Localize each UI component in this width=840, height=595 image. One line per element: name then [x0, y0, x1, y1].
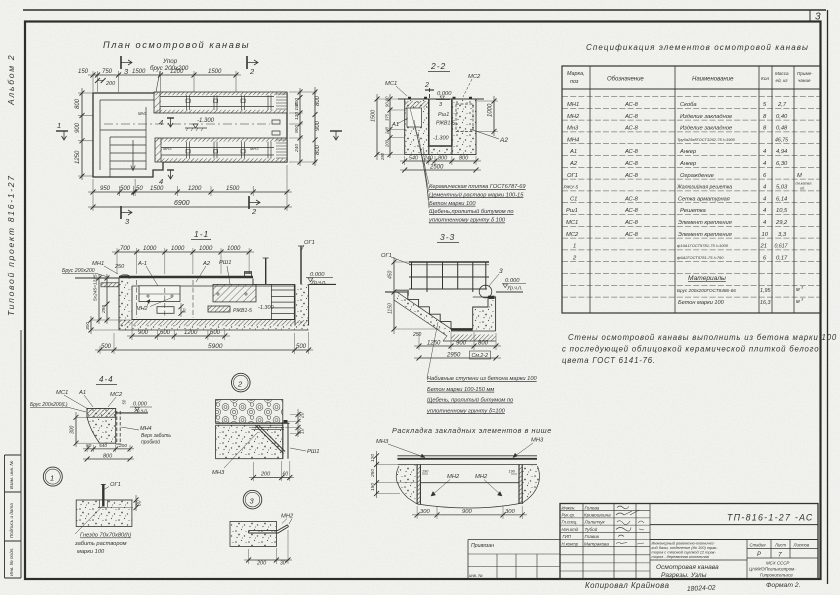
svg-text:Керамическая плитка ГОСТ6787-6: Керамическая плитка ГОСТ6787-69 — [429, 184, 526, 190]
svg-text:0,17: 0,17 — [776, 255, 788, 261]
svg-text:МСХ СССР: МСХ СССР — [766, 561, 789, 566]
МН4 pipe dashed — [117, 411, 120, 444]
svg-text:1: 1 — [50, 473, 54, 482]
svg-text:РЖВ1-5: РЖВ1-5 — [233, 308, 252, 314]
svg-text:300: 300 — [420, 509, 430, 515]
svg-text:900: 900 — [294, 125, 300, 133]
section marker 3 bottom — [121, 206, 132, 226]
svg-text:поз: поз — [570, 79, 579, 85]
svg-text:Рук.гр.: Рук.гр. — [562, 513, 576, 518]
svg-text:Кривошеина: Кривошеина — [584, 513, 611, 518]
svg-text:См.2-2: См.2-2 — [472, 353, 489, 359]
svg-text:Щебень, пролитый битумом по: Щебень, пролитый битумом по — [427, 397, 513, 404]
left brus dark band — [101, 283, 119, 287]
svg-text:Взам. инв. №: Взам. инв. № — [9, 461, 14, 489]
ground line left — [75, 277, 119, 279]
title block outline — [560, 504, 818, 580]
svg-text:1,95: 1,95 — [760, 288, 771, 294]
svg-text:1250: 1250 — [75, 150, 81, 164]
right ladder — [271, 284, 294, 319]
svg-text:МН3: МН3 — [212, 470, 225, 476]
svg-text:Формат 2.: Формат 2. — [766, 582, 801, 589]
svg-text:1000: 1000 — [143, 246, 157, 252]
svg-text:50: 50 — [122, 399, 127, 404]
section 1-1 left rotated dims — [91, 274, 132, 334]
svg-text:120 190: 120 190 — [294, 102, 300, 120]
svg-text:1500: 1500 — [226, 186, 240, 192]
svg-text:295: 295 — [101, 305, 107, 314]
svg-text:46,75: 46,75 — [775, 137, 788, 143]
top embed ticks — [408, 97, 472, 99]
svg-text:4: 4 — [763, 220, 766, 226]
RZhV dark vent rect — [208, 306, 230, 312]
svg-text:10,5: 10,5 — [776, 208, 788, 214]
plan top dimension line — [88, 71, 241, 92]
svg-text:ф6А2ГОСТ5781-75 l=760: ф6А2ГОСТ5781-75 l=760 — [677, 255, 724, 260]
steps — [397, 292, 473, 329]
section 2-2 left dims — [377, 94, 406, 160]
svg-text:А-1: А-1 — [137, 261, 147, 267]
svg-text:600: 600 — [210, 330, 221, 336]
svg-text:МН3: МН3 — [163, 146, 172, 151]
svg-text:750: 750 — [102, 69, 113, 75]
svg-text:Труба25х8ГОСТ3262-75 l=1900: Труба25х8ГОСТ3262-75 l=1900 — [677, 137, 736, 142]
detail 2 bottom dims — [249, 461, 294, 481]
svg-text:Скоба: Скоба — [680, 102, 697, 108]
svg-text:1000: 1000 — [171, 246, 185, 252]
section 3-3 pit body — [385, 290, 523, 341]
svg-text:190: 190 — [422, 470, 429, 474]
svg-text:Бетон марки 100: Бетон марки 100 — [678, 300, 725, 306]
plan right outer dims 800 900 800 — [314, 87, 316, 166]
svg-text:375: 375 — [385, 113, 390, 121]
svg-text:Р: Р — [757, 552, 761, 558]
detail 1 dim 80 — [108, 495, 136, 511]
svg-text:РШ1: РШ1 — [219, 260, 231, 266]
svg-text:20: 20 — [300, 412, 306, 419]
section 1-1 body — [75, 246, 336, 330]
svg-text:-1.300: -1.300 — [197, 118, 215, 124]
svg-text:Гнездо 70х70х80(h): Гнездо 70х70х80(h) — [80, 533, 131, 539]
svg-text:МН2: МН2 — [136, 306, 148, 312]
svg-text:10: 10 — [300, 428, 306, 434]
section marker 2 bottom — [249, 196, 260, 216]
svg-text:Верх забить: Верх забить — [141, 433, 171, 439]
svg-text:уплотненному грунту δ=100: уплотненному грунту δ=100 — [426, 408, 506, 414]
personnel labels — [562, 505, 579, 546]
svg-text:200: 200 — [256, 561, 267, 567]
small block on beam near RSh1 — [245, 272, 252, 277]
section marker 1 left — [56, 121, 68, 140]
svg-text:Спецификация элементов осмот: Спецификация элементов осмотровой канавы — [586, 43, 809, 52]
svg-text:240: 240 — [423, 156, 433, 162]
svg-text:1: 1 — [57, 121, 61, 130]
svg-text:1000: 1000 — [488, 103, 494, 117]
RSh1 hatched grate — [213, 284, 256, 302]
svg-text:МН4: МН4 — [567, 137, 579, 143]
svg-text:Набивные ступени из бетона мар: Набивные ступени из бетона марки 100 — [427, 376, 538, 382]
svg-text:Гипронисельхоз: Гипронисельхоз — [760, 573, 793, 578]
spec table col3 — [676, 102, 736, 260]
detail circle 2 marker — [232, 373, 251, 392]
plan upper grating strip — [154, 92, 287, 113]
svg-text:50: 50 — [86, 443, 92, 449]
detail 2 right dims — [285, 409, 301, 437]
svg-text:Сетка арматурная: Сетка арматурная — [678, 196, 730, 202]
diagonal strut МН3 — [255, 425, 285, 453]
svg-text:Кол: Кол — [761, 76, 769, 82]
svg-text:10: 10 — [762, 232, 769, 238]
svg-text:500: 500 — [296, 344, 307, 350]
sheet top edge line — [23, 9, 826, 11]
plan lower strip right end grain — [276, 140, 287, 158]
svg-text:А2: А2 — [569, 161, 578, 167]
svg-text:2: 2 — [249, 67, 255, 76]
svg-text:800: 800 — [103, 454, 113, 460]
svg-text:см.катал.: см.катал. — [796, 182, 813, 186]
plan left dimension line — [78, 88, 93, 180]
svg-text:Рш1: Рш1 — [566, 208, 578, 214]
svg-text:1-1: 1-1 — [194, 229, 209, 239]
svg-text:700: 700 — [120, 246, 131, 252]
svg-text:А2: А2 — [499, 137, 508, 144]
svg-text:90 90: 90 90 — [385, 96, 390, 107]
niche bottom — [420, 482, 519, 484]
svg-text:Раскладка закладных элементо: Раскладка закладных элементов в нише — [392, 426, 552, 435]
svg-text:Разрезы. Узлы: Разрезы. Узлы — [661, 572, 707, 579]
detail circle 1 marker — [43, 467, 62, 486]
svg-text:Гл.спец.: Гл.спец. — [562, 520, 578, 525]
svg-text:450: 450 — [388, 270, 394, 279]
svg-text:А1: А1 — [78, 390, 86, 396]
svg-text:Ограждение: Ограждение — [680, 173, 715, 179]
svg-text:500: 500 — [120, 186, 131, 192]
svg-text:Лист: Лист — [774, 543, 786, 548]
bottom section lines — [650, 540, 818, 580]
niche in left wall — [407, 108, 422, 127]
dashed axis lines — [137, 280, 193, 318]
svg-text:Главик: Главик — [585, 534, 600, 539]
svg-text:План осмотровой канавы: План осмотровой канавы — [103, 40, 250, 50]
raskladka left dims — [377, 451, 418, 498]
svg-text:4: 4 — [763, 161, 766, 167]
svg-text:2: 2 — [237, 379, 243, 388]
section 1-1 total dims — [95, 332, 313, 354]
svg-text:900: 900 — [75, 122, 81, 133]
left wall cap bump — [119, 275, 130, 278]
svg-text:Элемент крепления: Элемент крепления — [678, 220, 732, 226]
svg-text:200: 200 — [260, 472, 271, 478]
svg-text:1200: 1200 — [184, 330, 198, 336]
svg-text:21: 21 — [760, 244, 767, 250]
top step right part — [253, 279, 295, 285]
svg-text:МН1: МН1 — [92, 261, 104, 267]
niche small lower rect — [157, 307, 174, 314]
svg-text:Элемент крепления: Элемент крепления — [678, 232, 732, 238]
svg-text:МС2: МС2 — [566, 232, 579, 238]
svg-text:300: 300 — [505, 509, 515, 515]
svg-text:900: 900 — [462, 509, 472, 515]
under-step band lines — [394, 292, 451, 336]
svg-text:Изделие закладное: Изделие закладное — [680, 114, 733, 120]
svg-text:4,94: 4,94 — [776, 149, 787, 155]
svg-text:А2: А2 — [202, 261, 211, 267]
svg-text:800: 800 — [315, 144, 321, 155]
svg-text:МН1: МН1 — [138, 111, 147, 116]
svg-text:Инжен.: Инжен. — [562, 505, 576, 510]
section 3-3 detail circle 3 — [479, 285, 492, 298]
svg-text:0.000: 0.000 — [133, 402, 148, 408]
section marker 3 top — [121, 56, 132, 76]
svg-text:МС1: МС1 — [566, 220, 578, 226]
svg-text:с последующей облицовкой керам: с последующей облицовкой керамической пл… — [562, 345, 819, 354]
detail 4-4 bottom dims — [83, 445, 134, 459]
tile layers band left wall — [405, 101, 429, 108]
svg-text:280: 280 — [380, 152, 385, 161]
svg-text:АС-8: АС-8 — [624, 114, 639, 120]
svg-text:500: 500 — [101, 344, 112, 350]
svg-text:1500: 1500 — [150, 186, 164, 192]
svg-text:РЖУ-5: РЖУ-5 — [564, 185, 579, 191]
svg-text:30: 30 — [280, 561, 286, 567]
svg-text:ОГ1: ОГ1 — [110, 482, 121, 488]
spec table col2 — [624, 102, 639, 238]
svg-text:АС-8: АС-8 — [624, 161, 639, 167]
svg-text:190: 190 — [509, 470, 516, 474]
svg-text:ф10А1ГОСТ5781-75 l=1000: ф10А1ГОСТ5781-75 l=1000 — [677, 243, 729, 248]
svg-text:пробкой: пробкой — [141, 439, 160, 446]
plan channel centerline — [104, 123, 270, 125]
svg-text:Лилипчук: Лилипчук — [584, 520, 606, 525]
detail 1 body — [76, 484, 132, 527]
svg-text:забить раствором: забить раствором — [74, 541, 127, 547]
svg-text:Инв. № подл.: Инв. № подл. — [9, 547, 14, 576]
svg-text:600: 600 — [160, 330, 171, 336]
svg-text:Анкер: Анкер — [679, 161, 697, 167]
plan stairs — [110, 137, 146, 177]
plan bottom dimension line — [88, 165, 292, 196]
detail 4-4 body — [87, 408, 148, 444]
svg-text:6900: 6900 — [174, 200, 190, 207]
svg-text:РШ1: РШ1 — [307, 449, 319, 455]
beam underside / interior top — [132, 285, 295, 287]
svg-text:1: 1 — [573, 244, 576, 250]
svg-text:29,2: 29,2 — [775, 220, 788, 226]
right wall and niche — [473, 297, 496, 331]
svg-text:900: 900 — [456, 341, 467, 347]
detail 3 body — [230, 521, 289, 546]
svg-text:2950: 2950 — [446, 353, 461, 359]
svg-text:800: 800 — [478, 341, 489, 347]
svg-text:Бетон марки 100-150 мм: Бетон марки 100-150 мм — [427, 387, 494, 393]
svg-text:марки 100: марки 100 — [77, 549, 105, 555]
svg-text:900: 900 — [138, 330, 149, 336]
ground line right — [309, 283, 336, 285]
svg-text:Голева: Голева — [585, 505, 600, 510]
plan right inner small dims — [289, 88, 317, 166]
plan lower grating strip — [155, 138, 287, 162]
svg-text:Копировал Крайнова: Копировал Крайнова — [585, 581, 670, 590]
svg-text:АС-8: АС-8 — [624, 173, 639, 179]
svg-text:3: 3 — [499, 268, 503, 275]
svg-text:Цементный раствор марки 100-15: Цементный раствор марки 100-15 — [429, 191, 524, 198]
section 3-3 bottom dims — [414, 332, 501, 350]
section 3-3 notes — [426, 376, 538, 414]
svg-text:Альбом 2: Альбом 2 — [6, 54, 16, 106]
svg-text:900: 900 — [315, 120, 321, 131]
svg-text:МН2: МН2 — [475, 474, 488, 480]
svg-text:950: 950 — [100, 186, 111, 192]
svg-text:ОГ1: ОГ1 — [304, 240, 315, 246]
svg-text:Бетон марки 100: Бетон марки 100 — [429, 201, 476, 207]
detail 3 bottom dims — [244, 530, 292, 564]
svg-text:16,3: 16,3 — [760, 300, 771, 306]
svg-text:Нач.отд: Нач.отд — [562, 527, 579, 532]
svg-text:250: 250 — [370, 469, 376, 478]
detail circle 3 marker — [243, 490, 262, 509]
svg-text:Щебень,пролитый битумом по: Щебень,пролитый битумом по — [429, 208, 514, 215]
sidebar bottom cells column — [4, 455, 6, 578]
svg-text:250: 250 — [114, 264, 125, 270]
МС2 embed dashed — [456, 104, 473, 131]
section 1-1 bottom dims — [127, 322, 230, 340]
section marker 1 right — [330, 131, 342, 140]
svg-text:4: 4 — [159, 177, 163, 186]
svg-text:3,3: 3,3 — [778, 232, 787, 238]
svg-text:Брус 200х200(L): Брус 200х200(L) — [30, 402, 68, 408]
svg-text:0,48: 0,48 — [776, 126, 788, 132]
plan inner wall lines left block — [100, 100, 154, 170]
svg-text:МС2: МС2 — [110, 392, 123, 398]
svg-text:ОГ1: ОГ1 — [567, 173, 578, 179]
plan upper strip right end grain — [276, 94, 287, 109]
svg-text:Осмотровая канава: Осмотровая канава — [656, 564, 719, 571]
svg-text:4: 4 — [763, 185, 766, 191]
svg-text:300: 300 — [85, 322, 91, 330]
section marker 4 lower — [159, 170, 174, 186]
svg-text:1000: 1000 — [227, 246, 241, 252]
svg-text:Брус 200х200ГОСТ8486-66: Брус 200х200ГОСТ8486-66 — [677, 288, 736, 293]
niche rectangle — [139, 286, 180, 302]
section 3-3 railing — [409, 262, 489, 292]
svg-text:АС-8: АС-8 — [624, 220, 639, 226]
svg-text:АС-8: АС-8 — [624, 102, 639, 108]
raskladka body — [396, 456, 539, 508]
svg-text:об.: об. — [800, 187, 805, 191]
svg-text:Рш1: Рш1 — [438, 112, 449, 118]
page number box tick — [809, 10, 811, 22]
svg-text:1500: 1500 — [132, 69, 146, 75]
svg-text:5900: 5900 — [208, 343, 223, 350]
svg-text:2: 2 — [424, 82, 429, 89]
sheet right edge line — [827, 10, 829, 584]
section 2-2 layer notes — [428, 184, 526, 224]
svg-text:1200: 1200 — [188, 186, 202, 192]
pit floor and slab — [132, 319, 295, 321]
svg-text:2,7: 2,7 — [777, 102, 787, 108]
svg-text:Материалы: Материалы — [688, 275, 726, 282]
svg-text:АС-8: АС-8 — [624, 149, 639, 155]
svg-text:М: М — [797, 173, 802, 179]
svg-text:Листов: Листов — [793, 543, 810, 548]
svg-text:50: 50 — [136, 186, 143, 192]
svg-text:-1.300: -1.300 — [433, 136, 450, 142]
svg-text:Типовой проект 816-1-27: Типовой проект 816-1-27 — [6, 174, 16, 316]
pit tile walls thick lines — [429, 99, 452, 146]
svg-text:С1: С1 — [570, 196, 577, 202]
svg-text:Решетка: Решетка — [680, 208, 707, 214]
svg-text:МС2: МС2 — [468, 74, 481, 80]
svg-text:540: 540 — [409, 156, 418, 162]
svg-text:АС-8: АС-8 — [624, 208, 639, 214]
svg-text:150: 150 — [78, 69, 89, 75]
svg-text:Ур.ч.п.: Ур.ч.п. — [311, 280, 326, 286]
svg-text:МН2: МН2 — [447, 474, 460, 480]
section 2-2 body — [398, 97, 484, 208]
svg-text:торов - деревянная котельная: торов - деревянная котельная — [652, 554, 709, 559]
section 1-1 top dimension line — [112, 248, 254, 274]
description small text — [652, 541, 719, 560]
svg-text:2: 2 — [251, 207, 257, 216]
svg-text:5,03: 5,03 — [776, 185, 788, 191]
svg-text:800: 800 — [459, 156, 469, 162]
svg-text:6,14: 6,14 — [776, 196, 787, 202]
svg-text:2-2: 2-2 — [430, 61, 446, 71]
section 3-3 left dims — [385, 257, 440, 334]
svg-text:4-4: 4-4 — [99, 375, 114, 384]
svg-text:800: 800 — [315, 95, 321, 106]
svg-text:м: м — [796, 287, 800, 293]
svg-text:МН3: МН3 — [250, 146, 259, 151]
svg-text:Марка,: Марка, — [567, 71, 585, 77]
svg-text:4: 4 — [159, 118, 163, 127]
svg-text:Тубой: Тубой — [585, 526, 598, 532]
svg-text:Н.контр: Н.контр — [562, 541, 579, 546]
top wood beam thick — [119, 276, 253, 279]
svg-text:4: 4 — [763, 208, 766, 214]
svg-text:Масса: Масса — [775, 71, 789, 76]
svg-text:1150: 1150 — [388, 303, 394, 314]
svg-text:2500: 2500 — [429, 165, 444, 171]
privyazka box — [468, 540, 560, 580]
svg-text:инв. №: инв. № — [469, 573, 483, 578]
svg-text:ЦНИИЭПсельхозпром-: ЦНИИЭПсельхозпром- — [749, 567, 796, 572]
side bars — [417, 465, 420, 505]
detail 2 body — [216, 400, 290, 459]
spec table col1 — [564, 102, 581, 261]
svg-text:Матракова: Матракова — [584, 541, 609, 546]
spec table grid — [562, 66, 821, 313]
svg-text:200: 200 — [105, 81, 116, 87]
spec table col4 col5 — [760, 102, 789, 261]
plan pit end elements right — [272, 120, 280, 135]
svg-text:МН3: МН3 — [531, 438, 544, 444]
soil wavy outline — [396, 466, 539, 504]
svg-text:0.000: 0.000 — [505, 278, 520, 284]
ground ledge left — [395, 290, 408, 296]
raskladka bottom dims — [412, 506, 527, 519]
svg-text:Привязан: Привязан — [471, 543, 494, 549]
slab bottom — [443, 331, 496, 341]
svg-text:АС-8: АС-8 — [624, 232, 639, 238]
svg-text:1000: 1000 — [199, 246, 213, 252]
svg-text:цвета ГОСТ 6141-76.: цвета ГОСТ 6141-76. — [562, 356, 656, 365]
svg-text:Изделие закладное: Изделие закладное — [680, 126, 733, 132]
surface line right — [116, 412, 148, 414]
svg-text:Жалюзийная решетка: Жалюзийная решетка — [676, 184, 732, 191]
svg-text:1500: 1500 — [208, 69, 222, 75]
svg-text:300: 300 — [70, 425, 76, 434]
